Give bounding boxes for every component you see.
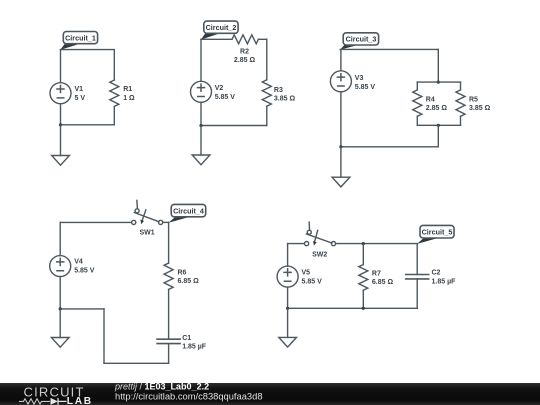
resistor R3 (262, 80, 271, 106)
wire R5 top stub (460, 82, 462, 90)
CircuitLab logo squiggle resistor (19, 399, 50, 404)
wire C2 bottom stub (416, 279, 418, 308)
svg-text:C1: C1 (182, 335, 191, 342)
wire top left circuit 2 (201, 38, 232, 40)
wire R7 top stub (362, 244, 364, 265)
wire R4 top stub (416, 82, 418, 90)
wire R6 top stub (168, 222, 170, 263)
svg-text:1.85 µF: 1.85 µF (182, 343, 207, 350)
svg-text:SW1: SW1 (140, 229, 155, 236)
svg-text:SW2: SW2 (312, 251, 327, 258)
svg-text:5.85 V: 5.85 V (215, 94, 236, 101)
svg-text:1.85 µF: 1.85 µF (432, 279, 457, 286)
node label Circuit_4 callout pointer (169, 217, 191, 223)
svg-text:5 V: 5 V (75, 95, 86, 102)
switch SW2 lever (306, 234, 331, 243)
wire R1 branch right side (113, 50, 115, 80)
ground circuit 5 (279, 337, 297, 347)
svg-text:R2: R2 (240, 49, 249, 56)
switch SW2 (305, 222, 336, 246)
svg-text:V1: V1 (75, 86, 84, 93)
svg-text:6.85 Ω: 6.85 Ω (372, 279, 394, 286)
wire left riser circuit 4 (103, 309, 105, 363)
svg-text:3.85 Ω: 3.85 Ω (274, 96, 296, 103)
wire R1 bottom (113, 106, 115, 124)
svg-text:LAB: LAB (67, 396, 93, 405)
svg-text:Circuit_5: Circuit_5 (422, 228, 453, 237)
voltage source V5 (277, 266, 298, 287)
switch SW1 left terminal (132, 220, 136, 224)
svg-text:6.85 Ω: 6.85 Ω (178, 278, 200, 285)
wire V4 top stub (59, 222, 61, 255)
resistor R2 (232, 35, 258, 44)
wire top right circuit 2 (258, 38, 266, 40)
junction node dot circuit 3 (339, 145, 342, 148)
switch SW1 actuation arrow head (140, 220, 144, 225)
voltage source V2 (191, 81, 212, 102)
wire bottom of circuit 2 (201, 125, 267, 127)
ground circuit 1 (52, 156, 70, 166)
node label Circuit_4 box (171, 204, 206, 216)
wire R3 top stub (266, 39, 268, 80)
svg-text:V5: V5 (302, 270, 311, 277)
svg-text:R4: R4 (426, 96, 435, 103)
wire V5 bottom (287, 287, 289, 308)
node label Circuit_3 box (343, 33, 378, 45)
node label Circuit_3 callout pointer (340, 45, 359, 50)
wire V2 top stub (200, 39, 202, 81)
capacitor C2 (406, 275, 429, 279)
wire V3 top stub (340, 49, 342, 70)
junction node dot circuit 2 (199, 124, 202, 127)
svg-text:http://circuitlab.com/c838qquf: http://circuitlab.com/c838qqufaa3d8 (115, 392, 263, 402)
resistor R5 (456, 90, 465, 116)
junction node dot circuit 4 (59, 307, 62, 310)
svg-text:R6: R6 (178, 270, 187, 277)
svg-text:Circuit_3: Circuit_3 (346, 35, 377, 44)
switch SW1 right terminal (159, 220, 163, 224)
svg-text:2.85 Ω: 2.85 Ω (234, 57, 256, 64)
CircuitLab logo diode (51, 398, 58, 405)
wire bottom of circuit 5 (288, 307, 418, 309)
switch SW2 left terminal (305, 242, 309, 246)
node dot R7 top (362, 242, 365, 245)
resistor R1 (110, 80, 119, 106)
wire V3 bottom (340, 92, 342, 147)
switch SW1 top contact (135, 209, 139, 213)
wire parallel bottom drop (437, 125, 439, 147)
svg-text:3.85 Ω: 3.85 Ω (469, 105, 491, 112)
voltage source V3 (330, 71, 351, 92)
switch SW2 actuation arrow head (313, 241, 317, 246)
resistor R6 (164, 263, 173, 289)
wire switch to corner circuit 4 (163, 221, 169, 223)
switch SW2 top stub (308, 222, 311, 230)
switch SW2 actuation arrow shaft (315, 230, 318, 241)
svg-text:2.85 Ω: 2.85 Ω (426, 105, 448, 112)
wire parallel bottom rail (417, 124, 460, 126)
wire to ground circuit 5 (287, 308, 289, 337)
switch SW1 lever (134, 213, 159, 222)
wire bottom of circuit 3 (341, 146, 438, 148)
resistor R4 (413, 90, 422, 116)
wire bottom of circuit 1 (61, 124, 115, 126)
svg-text:prettij / 1E03_Lab0_2.2: prettij / 1E03_Lab0_2.2 (114, 382, 209, 392)
node label Circuit_1 box (63, 32, 97, 44)
switch SW1 (132, 200, 163, 224)
svg-text:5.85 V: 5.85 V (74, 268, 95, 275)
svg-text:V4: V4 (74, 259, 83, 266)
node dot R7 bottom (362, 307, 365, 310)
junction node dot circuit 5 (286, 307, 289, 310)
svg-text:C2: C2 (432, 270, 441, 277)
wire to ground circuit 2 (200, 126, 202, 156)
switch SW2 top contact (307, 230, 311, 234)
wire top left circuit 4 (60, 221, 131, 223)
wire V1 bottom to junction (60, 104, 62, 125)
switch SW2 right terminal (331, 242, 335, 246)
wire top of circuit 1 (60, 49, 114, 51)
svg-text:Circuit_4: Circuit_4 (173, 206, 204, 215)
wire V1 top stub (60, 50, 62, 83)
resistor R7 (359, 265, 368, 291)
wire R4 bottom stub (416, 116, 418, 125)
wire C1 bottom (168, 344, 170, 364)
ground circuit 3 (332, 177, 350, 187)
wire to ground circuit 4 (59, 309, 61, 338)
node dot parallel top (437, 81, 440, 84)
svg-text:5.85 V: 5.85 V (355, 84, 376, 91)
node label Circuit_5 callout pointer (417, 238, 438, 244)
wire V4 bottom (59, 277, 61, 309)
svg-text:R3: R3 (274, 87, 283, 94)
ground circuit 2 (192, 155, 210, 165)
wire parallel top rail (417, 81, 460, 83)
wire top of circuit 3 (340, 48, 438, 50)
wire C2 top stub (416, 244, 418, 275)
wire V5 top stub (287, 244, 289, 267)
capacitor C1 (157, 339, 180, 343)
svg-text:V3: V3 (355, 75, 364, 82)
switch SW1 actuation arrow shaft (142, 210, 146, 221)
svg-text:R1: R1 (123, 86, 132, 93)
voltage source V4 (50, 256, 71, 277)
wire R6 to C1 (168, 290, 170, 340)
svg-text:1 Ω: 1 Ω (123, 95, 135, 102)
svg-text:R5: R5 (469, 96, 478, 103)
svg-text:R7: R7 (372, 270, 381, 277)
wire R3 bottom (266, 106, 268, 125)
node label Circuit_2 callout pointer (201, 33, 220, 39)
node label Circuit_5 box (420, 225, 454, 238)
svg-text:Circuit_1: Circuit_1 (65, 33, 96, 42)
wire to ground circuit 3 (340, 147, 342, 177)
node label Circuit_1 callout pointer (60, 44, 79, 50)
wire bottom of circuit 4 (104, 362, 169, 364)
voltage source V1 (50, 83, 71, 104)
wire junction to riser circuit 4 (60, 308, 104, 310)
wire V2 bottom (200, 102, 202, 125)
wire top left circuit 5 (288, 243, 305, 245)
wire right drop circuit 3 (437, 49, 439, 82)
wire R5 bottom stub (460, 116, 462, 125)
switch SW1 top stub (136, 200, 139, 208)
node dot parallel bottom (437, 124, 440, 127)
wire to ground circuit 1 (60, 125, 62, 156)
wire switch to capacitor branch circuit 5 (336, 243, 418, 245)
svg-text:Circuit_2: Circuit_2 (206, 23, 237, 32)
junction node dot circuit 1 (59, 123, 62, 126)
wire R7 bottom stub (362, 290, 364, 308)
node label Circuit_2 box (204, 21, 238, 33)
ground circuit 4 (51, 338, 69, 348)
svg-text:V2: V2 (215, 85, 224, 92)
svg-text:5.85 V: 5.85 V (302, 279, 323, 286)
